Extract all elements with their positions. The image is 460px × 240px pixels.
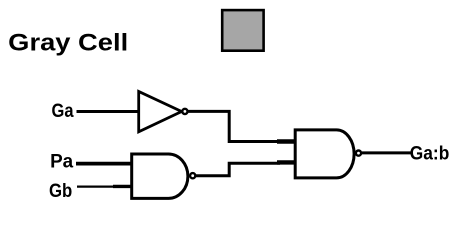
NAND gate U3 output bubble (356, 151, 361, 156)
svg-text:Gray Cell: Gray Cell (8, 30, 128, 57)
NAND gate U2 output bubble (190, 173, 195, 178)
wire inverter output to NAND U3 top input (188, 111, 280, 141)
thick input stub NAND U3 top (277, 139, 297, 144)
svg-text:Ga: Ga (52, 100, 74, 122)
gray square marker (222, 10, 263, 51)
wire Gb to NAND U2 bottom input (77, 185, 115, 187)
svg-text:Ga:b: Ga:b (410, 143, 450, 165)
inverter U1 output bubble (182, 109, 187, 114)
NAND gate U2 body (132, 154, 188, 198)
wire Pa to NAND U2 top input (76, 162, 133, 166)
thick input stub NAND U2 bottom (113, 185, 133, 188)
NAND gate U3 body (295, 130, 354, 178)
svg-text:Gb: Gb (49, 180, 72, 202)
wire Ga to inverter input (77, 110, 141, 113)
wire NAND U3 output to Ga:b (362, 151, 413, 154)
svg-text:Pa: Pa (50, 150, 73, 172)
inverter U1 triangle (139, 92, 182, 132)
thick input stub NAND U3 bottom (277, 160, 297, 164)
wire NAND U2 output to NAND U3 bottom input (196, 163, 280, 175)
